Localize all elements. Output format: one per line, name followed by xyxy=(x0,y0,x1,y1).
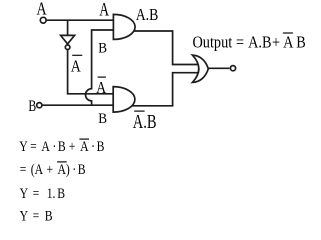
svg-text:A: A xyxy=(37,0,47,19)
svg-text:Y=B: Y=B xyxy=(20,207,53,223)
svg-text:B: B xyxy=(28,98,36,115)
svg-text:Output=A.B+AB: Output=A.B+AB xyxy=(193,33,306,51)
svg-text:Y=A·B+A·B: Y=A·B+A·B xyxy=(19,138,104,154)
svg-text:A.B: A.B xyxy=(136,6,159,25)
svg-text:B: B xyxy=(98,40,107,56)
svg-text:B: B xyxy=(98,111,107,127)
svg-text:A.B: A.B xyxy=(133,110,157,133)
svg-text:A: A xyxy=(96,79,107,98)
svg-text:A: A xyxy=(99,0,109,20)
svg-text:A: A xyxy=(71,57,82,76)
